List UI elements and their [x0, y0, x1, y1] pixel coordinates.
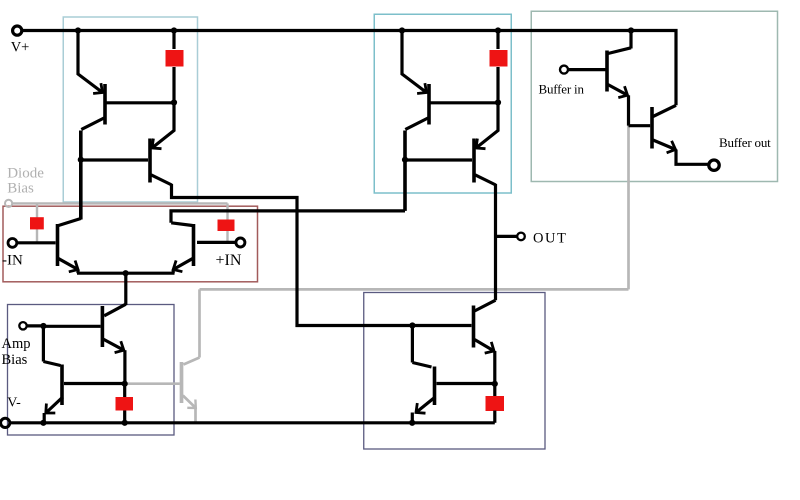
- node: rail-Q1: [75, 27, 81, 33]
- transistor Q1 (PNP, first stage left): [78, 31, 103, 93]
- resistor R1: [172, 31, 175, 50]
- wire: buffer in lead: [568, 68, 606, 71]
- terminal: V+: [13, 26, 22, 35]
- svg-text:Bias: Bias: [2, 352, 28, 368]
- node: amp bias: [40, 323, 46, 329]
- transistor Q8 (NPN, diode-connected bias): [42, 326, 45, 362]
- wire: gray feedback horizontal: [200, 288, 629, 291]
- node: Q10 emitter on rail: [409, 420, 415, 426]
- node: Q8 emitter on rail: [40, 420, 46, 426]
- wire: Q3 collector drop / node B2: [403, 131, 407, 211]
- transistor Q13 (NPN, buffer output): [629, 124, 651, 127]
- node: rail-R1: [171, 27, 177, 33]
- svg-text:Bias: Bias: [7, 181, 34, 197]
- transistor Q3 (PNP, second stage left): [402, 31, 427, 93]
- transistor Q4 (PNP, second stage right): [476, 103, 498, 149]
- terminal: +IN: [236, 238, 245, 247]
- terminal: V-: [1, 418, 10, 427]
- box: output buffer (pale green): [531, 11, 777, 181]
- svg-text:V+: V+: [11, 40, 30, 56]
- wire: V+ rail: [22, 29, 631, 32]
- transistor Q9 (NPN, VAS): [475, 300, 496, 311]
- wire: Q2 collector to VAS mirror input: [172, 184, 413, 326]
- box: second stage current-mirror load (cyan): [374, 14, 511, 193]
- wire: tail current feed: [124, 272, 127, 306]
- svg-text:+IN: +IN: [216, 252, 242, 269]
- wire: V- rail: [10, 421, 495, 424]
- transistor Q5 (NPN, input left): [56, 224, 60, 266]
- wire: -IN base lead: [16, 241, 56, 244]
- node: VAS emitter node: [492, 381, 498, 387]
- transistor Q11 gray bias mirror output (NPN, gray): [198, 289, 201, 357]
- node: R3 on rail: [122, 420, 128, 426]
- wire: Q6 collector to second stage base node: [171, 211, 405, 223]
- terminal: Amp Bias: [19, 322, 26, 329]
- box: first stage current-mirror load (light blue): [63, 17, 197, 202]
- svg-text:Diode: Diode: [7, 166, 44, 182]
- transistor Q6 (NPN, input right): [192, 224, 196, 266]
- node: rail-Q3: [399, 27, 405, 33]
- box: input differential pair (dark red): [3, 206, 258, 282]
- transistor Q10 (NPN, diode-connected VAS mirror): [411, 326, 414, 363]
- wire: diode bias horizontal rail (gray): [12, 202, 227, 204]
- node: rail-R2: [495, 27, 501, 33]
- resistor R5 (-IN bias, red): [30, 217, 44, 229]
- terminal: Buffer in: [560, 66, 568, 74]
- wire: amp bias lead: [27, 324, 44, 327]
- terminal: Buffer out: [709, 160, 719, 170]
- resistor R4: [493, 384, 496, 397]
- wire: Q4 collector down to OUT and VAS: [494, 184, 497, 300]
- box: VAS current mirror (navy): [364, 293, 545, 450]
- wire: diode bias drop to -IN resistor (gray): [36, 203, 38, 242]
- terminal: Diode Bias (gray): [5, 200, 12, 207]
- node A1: [171, 99, 177, 105]
- wire: +IN base lead: [197, 241, 236, 244]
- transistor Q2 (PNP, first stage right): [152, 103, 174, 149]
- wire: common emitter tail: [77, 272, 175, 275]
- resistor R2: [496, 31, 499, 50]
- resistor R3: [123, 384, 126, 397]
- svg-text:V-: V-: [7, 396, 21, 411]
- wire: OUT tap: [496, 235, 518, 238]
- box: amp bias current mirror (navy): [8, 305, 175, 436]
- wire: V+ corner feed to buffer output transistor: [631, 31, 676, 106]
- node: buffer rail tap: [628, 27, 634, 33]
- node: VAS base node: [409, 322, 415, 328]
- transistor Q12 (NPN, buffer input): [605, 51, 609, 92]
- wire: buffer out lead: [676, 150, 709, 165]
- svg-text:Buffer out: Buffer out: [719, 135, 771, 150]
- transistor Q7 (NPN, tail current source): [104, 304, 126, 316]
- svg-text:Buffer in: Buffer in: [539, 81, 585, 96]
- svg-text:-IN: -IN: [2, 253, 23, 269]
- terminal: OUT: [517, 233, 525, 241]
- svg-text:OUT: OUT: [533, 231, 567, 247]
- terminal: -IN: [8, 239, 17, 248]
- node: bias mirror base: [122, 381, 128, 387]
- resistor R6 (+IN bias, red): [218, 220, 235, 232]
- wire: diode bias drop to +IN resistor (gray): [226, 203, 228, 242]
- wire: Q1 collector drop / node B1: [79, 131, 83, 220]
- svg-text:Amp: Amp: [2, 336, 31, 352]
- wire: gray feedback from buffer down: [627, 126, 630, 289]
- node A2: [495, 99, 501, 105]
